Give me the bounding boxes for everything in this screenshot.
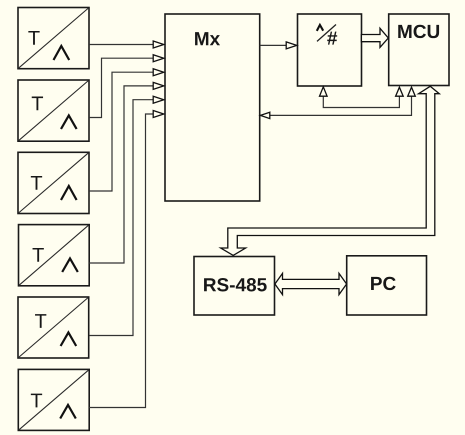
caret symbol S2 <box>61 116 77 130</box>
box RS-485 outline <box>194 257 275 316</box>
diagonal divider S6 <box>19 370 89 430</box>
wire S4 to Mx input 4 <box>89 82 164 263</box>
arrowhead into Mx input 6 <box>153 111 164 118</box>
box S3 outline <box>18 152 89 213</box>
arrowhead into Mx input 5 <box>153 96 164 103</box>
caret symbol S3 <box>61 186 77 200</box>
sensor block S2 <box>18 80 89 141</box>
wire S1 to Mx input 1 <box>89 41 164 48</box>
RS-485 block <box>194 257 275 316</box>
arrowhead into Mx input 1 <box>153 41 164 48</box>
control line ADC to MCU (bottom) <box>320 87 404 108</box>
wire Mx to ADC <box>260 42 297 49</box>
fat bus RS-485 to PC <box>275 273 347 294</box>
bus arrow ADC to MCU <box>361 28 388 47</box>
arrowhead into MCU bottom 2 <box>408 87 416 96</box>
caret symbol S4 <box>62 259 78 273</box>
arrowhead into Mx input 2 <box>153 55 164 62</box>
fat bus MCU to RS-485 <box>221 86 440 255</box>
PC block <box>347 256 427 315</box>
arrowhead into ADC <box>286 42 297 49</box>
sensor block S1 <box>18 8 89 69</box>
arrowhead into ADC bottom <box>320 87 328 96</box>
control line MCU to Mx <box>260 87 415 118</box>
diagonal divider S4 <box>19 225 89 285</box>
wire S3 to Mx input 3 <box>89 69 164 191</box>
divider slash <box>317 25 336 42</box>
label MCU <box>398 25 439 38</box>
label PC <box>371 277 396 290</box>
arrowhead into Mx right <box>260 112 269 118</box>
diagonal divider S3 <box>19 153 89 213</box>
box S6 outline <box>18 369 89 430</box>
box S2 outline <box>18 80 89 141</box>
label T S1 <box>28 31 39 45</box>
diagonal divider S1 <box>19 8 89 68</box>
wire S2 to Mx input 2 <box>89 55 164 118</box>
arrowhead into Mx input 4 <box>153 82 164 89</box>
diagonal divider S2 <box>19 81 89 141</box>
box PC outline <box>347 256 427 315</box>
label T S6 <box>31 394 42 408</box>
caret symbol S1 <box>54 46 70 60</box>
label T S5 <box>35 314 46 328</box>
arrowhead into Mx input 3 <box>153 69 164 76</box>
MCU block <box>389 14 449 86</box>
wire S6 to Mx input 6 <box>89 111 164 408</box>
arrowhead into MCU bottom 1 <box>396 87 404 96</box>
sensor block S4 <box>19 225 90 286</box>
digital symbol hash <box>327 32 337 45</box>
analog symbol caret <box>317 25 323 31</box>
sensor block S5 <box>18 297 89 358</box>
box S4 outline <box>19 225 90 286</box>
label T S4 <box>33 248 44 262</box>
label RS-485 <box>204 278 267 291</box>
label T S2 <box>32 97 43 111</box>
label Mx <box>195 32 220 45</box>
sensor block S6 <box>18 369 89 430</box>
box Mx outline <box>165 14 260 201</box>
box MCU outline <box>389 14 449 86</box>
wire S5 to Mx input 5 <box>89 96 164 335</box>
sensor block S3 <box>18 152 89 213</box>
caret symbol S6 <box>60 405 76 419</box>
ADC block <box>298 14 362 86</box>
box S1 outline <box>18 8 89 69</box>
label T S3 <box>31 176 42 190</box>
box ADC outline <box>298 14 362 86</box>
multiplexer Mx <box>165 14 260 201</box>
caret symbol S5 <box>61 333 77 347</box>
box S5 outline <box>18 297 89 358</box>
diagonal divider S5 <box>19 298 89 358</box>
